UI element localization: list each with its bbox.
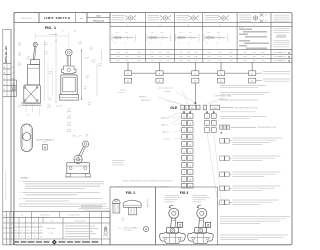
svg-text:x.xx: x.xx (158, 60, 161, 62)
header designed box (14, 13, 39, 23)
svg-text:4: 4 (184, 172, 185, 174)
svg-text:x xx: x xx (116, 32, 119, 34)
FIG 2 circled A (143, 226, 148, 231)
svg-text:x.xx: x.xx (158, 52, 161, 54)
title block grid (3, 211, 110, 213)
svg-text:(xxx): (xxx) (98, 65, 102, 67)
svg-text:xxx xxxx: xxx xxxx (163, 139, 170, 141)
svg-text:MTG-GL-93: MTG-GL-93 (93, 20, 105, 22)
svg-text:(xx): (xx) (88, 104, 91, 106)
fig1 dimension witness lines (47, 63, 49, 100)
tree drop line to part number with arrow (194, 83, 196, 102)
svg-text:x.xx: x.xx (179, 52, 182, 54)
FIG 2 bolt shank (129, 207, 137, 215)
svg-text:x.xx: x.xx (261, 60, 264, 62)
svg-text:12: 12 (189, 151, 191, 153)
top view stadium body (21, 124, 32, 152)
svg-text:x.xx: x.xx (150, 60, 153, 62)
svg-text:x.xx: x.xx (229, 56, 232, 58)
svg-text:x.xx: x.xx (90, 47, 93, 49)
svg-text:x x: x x (160, 43, 162, 45)
header title LIMIT SWITCH (39, 13, 87, 23)
svg-text:xx: xx (150, 43, 152, 45)
svg-text:IDENTIFICATION CODE: IDENTIFICATION CODE (258, 126, 277, 129)
FIG 3 lever assembly 2 clamp hub (195, 228, 207, 234)
FIG 3 lever assembly 2 arm (199, 218, 200, 228)
svg-text:x.xx: x.xx (137, 60, 140, 62)
svg-text:4: 4 (184, 116, 185, 118)
svg-text:x.xx: x.xx (194, 56, 197, 58)
column 2 header: roller lever actuator (148, 14, 160, 16)
right column final note (220, 234, 288, 236)
svg-text:2: 2 (4, 89, 5, 91)
svg-text:xx: xx (12, 78, 14, 80)
right column spec paragraph 1 (220, 85, 266, 87)
svg-text:MTG-GL-93: MTG-GL-93 (4, 46, 8, 63)
svg-text:x.xx: x.xx (243, 60, 246, 62)
FIG 3 lever assembly 2 caption (192, 195, 207, 197)
svg-text:x.xx: x.xx (187, 56, 190, 58)
title block symbol cell (104, 226, 107, 229)
right column closing paragraph (220, 216, 290, 218)
svg-text:x.xx: x.xx (252, 56, 255, 58)
FIG 2 bolt flange (123, 200, 141, 207)
title block left value cells (3, 227, 14, 229)
svg-text:04: 04 (189, 130, 191, 132)
svg-text:GLE: GLE (170, 106, 178, 110)
svg-text:xxx xxxxx xxxxx: xxx xxxxx xxxxx (68, 215, 79, 217)
column 4 travel diagram (206, 37, 215, 39)
connector option entry 2 (220, 156, 224, 161)
column 1 header: side rotary actuator (112, 14, 124, 16)
svg-text:x.xx: x.xx (121, 217, 124, 219)
svg-text:GLD xxx: GLD xxx (47, 228, 56, 230)
svg-text:1: 1 (179, 224, 181, 228)
svg-text:(xx): (xx) (49, 100, 52, 102)
FIG 3 box (156, 187, 218, 245)
column 5 contact timing bars group 1 (239, 29, 252, 31)
svg-text:xxx xxxx xxxx xxx: xxx xxxx xxxx xxx (74, 220, 86, 222)
svg-text:x.xx: x.xx (187, 52, 190, 54)
ordering tree drop lines from table (127, 62, 129, 71)
FIG 3 lever assembly 1 arm (171, 218, 172, 228)
right column spec line 4 (220, 111, 256, 113)
tilted lever switch feet (66, 173, 90, 176)
FIG 3 lever assembly 1 number tag (177, 222, 182, 227)
svg-text:xx: xx (12, 84, 14, 86)
svg-text:x.xx: x.xx (62, 31, 65, 33)
svg-text:0: 0 (213, 116, 214, 118)
svg-text:x.xx: x.xx (166, 56, 169, 58)
front view switch stem (66, 56, 68, 67)
svg-text:34: 34 (189, 172, 191, 174)
svg-text:x.xx: x.xx (179, 56, 182, 58)
conduit B label box (43, 144, 48, 150)
svg-text:(xx): (xx) (45, 53, 48, 55)
title block row 2 cells (18, 217, 20, 223)
front view switch head cross (62, 66, 76, 74)
svg-text:1: 1 (4, 84, 5, 86)
svg-text:x.xx: x.xx (86, 75, 89, 77)
up arrows from option clusters (183, 111, 185, 113)
front view switch body (61, 75, 77, 95)
FIG 3 lever assembly 2 rotation arrow (197, 205, 201, 207)
revision table in left strip (3, 63, 11, 65)
title block right symbols (104, 227, 107, 230)
leader fan lines to part number labels (158, 97, 181, 105)
svg-text:(xx): (xx) (49, 73, 52, 75)
FIG 3 lever assembly 1 roller (169, 208, 179, 218)
svg-text:xx: xx (21, 230, 23, 232)
svg-text:x.xx: x.xx (229, 60, 232, 62)
right notes column lower cells (274, 52, 287, 54)
svg-text:SEE IDENTIFICATION CODE: SEE IDENTIFICATION CODE (235, 107, 258, 110)
svg-text:xx: xx (27, 236, 29, 238)
svg-text:xx x: xx x (218, 32, 221, 34)
FIG 3 lever assembly 2 serrated base (187, 232, 213, 243)
svg-text:xx: xx (34, 220, 36, 222)
front view switch roller (66, 49, 73, 56)
svg-text:CONDUIT THREAD (C): CONDUIT THREAD (C) (36, 139, 54, 142)
svg-text:x.xx: x.xx (166, 52, 169, 54)
FIG 3 lever assembly 1 serrated base (159, 232, 185, 243)
svg-text:xx x: xx x (161, 32, 164, 34)
svg-text:06: 06 (189, 144, 191, 146)
svg-text:xx: xx (40, 236, 42, 238)
long leader diagonals to note (207, 132, 219, 207)
leader to roller lever note 2 (256, 80, 262, 82)
svg-text:NOTE - XX ROLLER XX TYPE XX LE: NOTE - XX ROLLER XX TYPE XX LEVERS XXX X… (123, 181, 173, 183)
svg-text:x.xx: x.xx (150, 56, 153, 58)
connector option entry 4 (220, 186, 224, 191)
svg-text:x.xx: x.xx (150, 52, 153, 54)
svg-text:x.xx: x.xx (146, 200, 149, 202)
svg-text:xx xxx: xx xxx (49, 233, 54, 235)
connector option entry 3 (220, 172, 224, 177)
svg-text:x.xx: x.xx (278, 52, 281, 54)
svg-text:4: 4 (207, 123, 208, 125)
svg-text:x.xx: x.xx (137, 52, 140, 54)
column 5 contact timing bars group 2 (239, 40, 250, 42)
part number identification code box (210, 105, 220, 110)
svg-text:xx: xx (12, 89, 14, 91)
svg-text:x.xx (xx): x.xx (xx) (56, 106, 62, 108)
svg-text:xxx: xxx (80, 18, 83, 20)
svg-text:xx: xx (34, 230, 36, 232)
actuator selection table grid (110, 22, 292, 24)
svg-text:(xx): (xx) (18, 65, 21, 67)
svg-text:38: 38 (189, 179, 191, 181)
FIG 2 clamp part (113, 199, 120, 203)
svg-text:x x: x x (217, 43, 219, 45)
svg-text:(xx): (xx) (86, 77, 89, 79)
svg-text:THIS DRAWING IS THE PROPERTY O: THIS DRAWING IS THE PROPERTY OF (5, 169, 8, 200)
svg-text:x.xx (xxx): x.xx (xxx) (49, 34, 56, 36)
front view switch base plate (59, 95, 78, 100)
svg-text:x.xx: x.xx (218, 52, 221, 54)
FIG 3 lever assembly 2 number tag (205, 222, 210, 227)
svg-text:xx xx: xx xx (50, 220, 54, 222)
svg-text:x xx: x xx (151, 32, 154, 34)
svg-text:LIMIT SWITCH: LIMIT SWITCH (44, 16, 71, 20)
svg-text:x.xx: x.xx (49, 98, 52, 100)
svg-text:x.xx: x.xx (243, 52, 246, 54)
svg-text:x.xx: x.xx (218, 60, 221, 62)
svg-text:(xxx): (xxx) (78, 43, 82, 45)
svg-text:x.xx: x.xx (207, 52, 210, 54)
title block above text (78, 208, 109, 210)
FIG 2 box (110, 187, 156, 245)
svg-text:FIG 3: FIG 3 (180, 191, 189, 195)
svg-text:x xx: x xx (208, 32, 211, 34)
svg-text:xxxx xxxx xxx: xxxx xxxx xxx (40, 215, 50, 217)
svg-text:xxx xxxx: xxx xxxx (164, 91, 171, 93)
FIG 3 lever assembly 1 clamp hub (167, 228, 179, 234)
svg-text:(19): (19) (27, 59, 30, 61)
fig1 long vertical dimension line (55, 33, 57, 103)
svg-text:x.xx: x.xx (137, 56, 140, 58)
svg-text:22: 22 (189, 158, 191, 160)
svg-text:45°: 45° (73, 135, 76, 137)
right notes column cell 1 (274, 14, 290, 16)
svg-text:x.xx: x.xx (194, 52, 197, 54)
svg-text:(xxx): (xxx) (44, 44, 48, 46)
front view right dimension line (81, 50, 83, 101)
svg-text:x WAY xxxx: x WAY xxxx (160, 117, 169, 120)
svg-text:4: 4 (184, 130, 185, 132)
svg-text:x.xx: x.xx (125, 52, 128, 54)
tilted lever switch roller (83, 141, 89, 147)
tilted lever switch hub (74, 155, 82, 163)
svg-text:4: 4 (184, 123, 185, 125)
svg-text:xSA xxxx: xSA xxxx (161, 124, 168, 127)
svg-text:02: 02 (189, 123, 191, 125)
svg-text:B: B (44, 146, 46, 150)
ordering tree option box pairs row 1 and row 2 (124, 71, 131, 76)
svg-text:4: 4 (184, 144, 185, 146)
svg-text:xx: xx (21, 236, 23, 238)
left margin strip with part number (3, 30, 11, 245)
svg-text:(xx): (xx) (84, 88, 87, 90)
svg-text:x.x: x.x (27, 115, 29, 117)
tilted lever switch body (67, 162, 90, 173)
column 3 header: adjustable lever actuator (177, 14, 189, 16)
svg-text:(xxx): (xxx) (67, 124, 71, 126)
svg-text:x.xx: x.xx (194, 60, 197, 62)
svg-text:Designed: Designed (21, 16, 33, 20)
svg-text:4: 4 (207, 116, 208, 118)
svg-text:x xx: x xx (179, 32, 182, 34)
header drawing number box GLD / MTG-GL-93 (87, 13, 110, 23)
svg-text:x.xx: x.xx (261, 56, 264, 58)
svg-text:NOTES:: NOTES: (21, 178, 29, 180)
svg-text:x.xx: x.xx (116, 52, 119, 54)
fig1 lower dimension details (101, 50, 103, 61)
svg-text:x x: x x (188, 43, 190, 45)
right notes column cell 2 (271, 49, 292, 51)
FIG 3 lever assembly 1 rotation arrow (169, 205, 173, 207)
front view second dimension line (96, 64, 98, 96)
title block row 1 cells (30, 212, 32, 223)
svg-text:2: 2 (207, 224, 209, 228)
svg-text:(xx): (xx) (18, 55, 21, 57)
svg-text:x.xx: x.xx (45, 51, 48, 53)
leader to roller lever note 1 (256, 72, 262, 74)
footer approval strip (14, 241, 19, 243)
svg-text:XXXX: XXXX (212, 108, 218, 110)
tilted lever switch details (69, 167, 72, 170)
svg-text:x.xx: x.xx (187, 60, 190, 62)
svg-text:xx: xx (27, 230, 29, 232)
side view switch roller (33, 43, 37, 47)
svg-text:GLD: GLD (96, 15, 101, 17)
svg-text:x.xx: x.xx (79, 41, 82, 43)
svg-text:01: 01 (189, 116, 191, 118)
svg-text:xx xx x: xx xx x (239, 27, 244, 29)
svg-text:x.xx: x.xx (49, 71, 52, 73)
svg-text:x.xx: x.xx (278, 60, 281, 62)
column 4 header: plunger actuator (205, 14, 218, 16)
svg-text:xSB xxxx: xSB xxxx (162, 132, 169, 134)
column 2 travel diagram (149, 37, 158, 39)
svg-text:BASIC SW. x: BASIC SW. x (141, 99, 151, 102)
svg-text:xxxx xxxxx: xxxx xxxxx (124, 230, 132, 232)
svg-text:4: 4 (184, 158, 185, 160)
svg-text:4: 4 (184, 179, 185, 181)
column 1 travel diagram (114, 37, 123, 39)
svg-text:(xxx): (xxx) (67, 131, 71, 133)
ordering tree horizontal connector (128, 72, 252, 74)
svg-text:xx xxxx: xx xxxx (118, 92, 124, 94)
svg-text:x.xx: x.xx (88, 102, 91, 104)
svg-text:(xx): (xx) (121, 219, 124, 221)
svg-text:0.75: 0.75 (26, 57, 29, 59)
FIG 3 lever assembly 2 roller (197, 208, 207, 218)
svg-text:x.xx: x.xx (45, 42, 48, 44)
svg-text:x.xx / xx: x.xx / xx (91, 60, 97, 62)
svg-text:4: 4 (184, 151, 185, 153)
identification code leader (220, 107, 233, 109)
option code list left cluster (182, 114, 187, 119)
right column spec line 3 (220, 99, 258, 101)
svg-text:x.x: x.x (44, 62, 46, 64)
svg-text:(xxx): (xxx) (92, 62, 96, 64)
option code list right cluster (205, 114, 210, 119)
svg-text:FIG. 2: FIG. 2 (43, 142, 48, 144)
svg-text:x.xx: x.xx (229, 52, 232, 54)
svg-text:xx: xx (207, 43, 209, 45)
svg-text:(xx): (xx) (18, 107, 21, 109)
tolerance note above FIG 2 (112, 160, 125, 162)
right column spec paragraph 5 (220, 116, 266, 118)
right column spec paragraph 2 (220, 92, 270, 94)
svg-text:4: 4 (184, 137, 185, 139)
svg-text:23: 23 (189, 165, 191, 167)
svg-text:45°: 45° (86, 134, 89, 136)
footer diamond mark (52, 240, 57, 245)
fig1 top horizontal dimension lines (35, 35, 69, 37)
notes sub lines right (81, 204, 102, 206)
svg-text:x.xx: x.xx (207, 56, 210, 58)
svg-text:x x: x x (125, 43, 127, 45)
svg-text:x.xx: x.xx (243, 56, 246, 58)
svg-text:x.xx: x.xx (125, 56, 128, 58)
svg-text:(xxx): (xxx) (47, 107, 51, 109)
side view switch lever arm (33, 47, 35, 60)
svg-text:05: 05 (189, 137, 191, 139)
column 3 travel diagram (177, 37, 186, 39)
svg-text:(xxx): (xxx) (67, 111, 71, 113)
svg-text:x.xx: x.xx (207, 60, 210, 62)
svg-text:x.xx: x.xx (252, 60, 255, 62)
connector option entry 5 (220, 200, 224, 205)
svg-text:SERIES xx: SERIES xx (139, 97, 148, 99)
svg-text:4: 4 (184, 165, 185, 167)
svg-text:xxx: xxx (21, 215, 24, 217)
svg-text:x.xx: x.xx (278, 56, 281, 58)
svg-text:x.xx: x.xx (261, 52, 264, 54)
svg-text:(xxx): (xxx) (67, 118, 71, 120)
svg-text:x.xx: x.xx (179, 60, 182, 62)
svg-text:x.xx: x.xx (158, 56, 161, 58)
svg-text:xx: xx (115, 43, 117, 45)
side view switch body (28, 65, 40, 86)
svg-text:FIG. 1: FIG. 1 (45, 26, 56, 30)
svg-text:x.xx: x.xx (116, 56, 119, 58)
tilted lever switch arm (79, 146, 84, 156)
svg-text:x.xx: x.xx (84, 86, 87, 88)
svg-text:xx: xx (178, 43, 180, 45)
connector option entry 1 (220, 139, 224, 144)
svg-text:x.xx: x.xx (116, 60, 119, 62)
svg-text:xx: xx (12, 73, 14, 75)
identification code boxes (220, 125, 223, 129)
svg-text:xx: xx (34, 236, 36, 238)
svg-text:xxxx xxx xxxx xxxxx: xxxx xxx xxxx xxxxx (158, 88, 173, 90)
svg-text:x.xx: x.xx (218, 56, 221, 58)
svg-text:0: 0 (213, 123, 214, 125)
side view switch feet (21, 102, 41, 104)
svg-text:FIG. 2: FIG. 2 (126, 191, 136, 195)
title block row3 sub-table (18, 223, 20, 239)
svg-text:xx x: xx x (126, 32, 129, 34)
side view switch head (31, 60, 40, 65)
svg-text:x.xx: x.xx (252, 52, 255, 54)
svg-text:xx: xx (15, 230, 17, 232)
column 5 header: contact arrangement symbols (239, 14, 251, 16)
svg-text:x.xx: x.xx (166, 60, 169, 62)
svg-text:x.xx: x.xx (125, 60, 128, 62)
FIG 3 lever assembly 1 caption (164, 195, 179, 197)
svg-text:xx: xx (12, 67, 14, 69)
svg-text:xx x: xx x (189, 32, 192, 34)
title block address cell (65, 225, 95, 227)
svg-text:(xxx): (xxx) (89, 49, 93, 51)
svg-text:A: A (145, 227, 147, 231)
svg-text:(xx): (xx) (18, 45, 21, 47)
notes paragraph lines (22, 180, 104, 182)
svg-text:xx: xx (15, 236, 17, 238)
side view switch terminal box with cross (24, 85, 41, 103)
svg-text:xx: xx (40, 230, 42, 232)
